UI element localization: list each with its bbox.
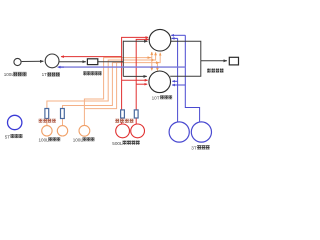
svg-text:3T: 3T (191, 145, 197, 150)
svg-text:1T: 1T (42, 72, 48, 77)
pipe orange T arrow up into top 10T fermenter (151, 52, 153, 58)
pipe orange junction arrow 3 (155, 62, 159, 64)
svg-text:100L: 100L (39, 137, 50, 142)
pipe red pH line 2 riser (136, 39, 148, 110)
valve discharge switch rectangle (229, 57, 238, 65)
label 除菌過濾 red group (115, 119, 133, 123)
tank 100L feed tank 1 (42, 126, 52, 136)
pipe red tank connection 1 (121, 118, 123, 124)
pipe blue stub 2 to bottom 10T fermenter (172, 84, 185, 86)
wire black harvest line from bottom 10T fermenter (170, 61, 201, 77)
label 5T配料槽 (5, 134, 23, 139)
pipe orange feed line 4 from antifoam tank (84, 63, 116, 109)
svg-text:100L: 100L (4, 72, 15, 77)
wire black: seed switch to split node (98, 61, 124, 63)
pipe red stub to bottom 10T fermenter (122, 79, 148, 81)
svg-text:500L: 500L (112, 141, 123, 146)
label 100L消泡槽 (73, 137, 95, 142)
pipe blue arrow 2 into top 10T fermenter (171, 34, 185, 36)
label 500L酸碱槽 (112, 141, 139, 146)
svg-text:100L: 100L (73, 137, 84, 142)
label 除菌過濾 orange group (39, 119, 56, 123)
pipe blue feed riser 2 with jog to tank 2 (185, 35, 199, 122)
svg-text:10T: 10T (152, 95, 160, 100)
tank 1T seed fermenter (45, 54, 59, 68)
wire black harvest arrow to discharge switch (201, 60, 227, 62)
label 放料切換 (207, 68, 224, 72)
label 3T补料槽 (191, 145, 209, 150)
wire black branch to top 10T fermenter (123, 40, 147, 42)
tank 5T batching tank (8, 115, 22, 129)
pipe orange feed line 3 from antifoam tank (84, 58, 151, 126)
label 10T発酵槽 (152, 95, 172, 100)
tank 3T feed tank 1 (169, 122, 189, 142)
svg-text:5T: 5T (5, 134, 11, 139)
pipe blue arrow into 1T fermenter (58, 66, 64, 68)
filter sterile filter feed line 1 (45, 109, 49, 119)
label 100L発酵槽 (4, 72, 27, 77)
pipe red stub to 1T fermenter (61, 56, 122, 58)
pipe blue stub 1 to bottom 10T fermenter (172, 80, 177, 82)
wire black split vertical (122, 41, 124, 77)
pipe orange arrow down 2 into bottom 10T fermenter (156, 63, 158, 71)
pipe orange junction arrow 2 (150, 59, 154, 61)
tank 500L acid tank (116, 124, 130, 138)
tank 3T feed tank 2 (191, 122, 211, 142)
valve seed transfer switch rectangle (87, 59, 97, 65)
pipe blue stub 1 to top 10T fermenter (172, 37, 178, 39)
pipe red tank connection 2 (135, 118, 137, 124)
wire black: 100L fermenter to 1T fermenter (22, 60, 44, 62)
pipe orange T arrow down into bottom 10T fermenter (151, 58, 153, 71)
pipe blue feed riser 1 (177, 38, 179, 122)
filter sterile filter feed line 2 (61, 109, 65, 119)
pipe blue supply line to 1T fermenter (59, 66, 185, 68)
tank 100L feed tank 2 (57, 126, 67, 136)
filter sterile filter acid line (121, 110, 125, 118)
tank 100L antifoam tank (79, 125, 90, 136)
wire black harvest line from top 10T fermenter (171, 41, 201, 61)
pipe red stub 2 to bottom 10T fermenter (136, 83, 147, 85)
wire black branch to bottom 10T fermenter (123, 75, 147, 77)
label 1T発酵槽 (42, 72, 60, 77)
pipe orange junction arrow 1 (147, 57, 151, 59)
pipe orange feed line 1 from 100L feed tank 1 (47, 52, 156, 125)
label 移種先切換 (83, 71, 101, 75)
tank 500L alkali tank (131, 124, 145, 138)
tank 100L seed fermenter (14, 58, 21, 65)
filter sterile filter alkali line (134, 110, 138, 118)
tank top 10T fermenter (149, 29, 171, 51)
tank bottom 10T fermenter (149, 71, 171, 93)
pipe red pH line 1 riser (122, 37, 149, 110)
label 100L補料槽 (39, 137, 61, 142)
pipe orange feed line 2 from 100L feed tank 2 (63, 53, 161, 126)
wire black: 1T fermenter to seed transfer switch (59, 61, 86, 63)
